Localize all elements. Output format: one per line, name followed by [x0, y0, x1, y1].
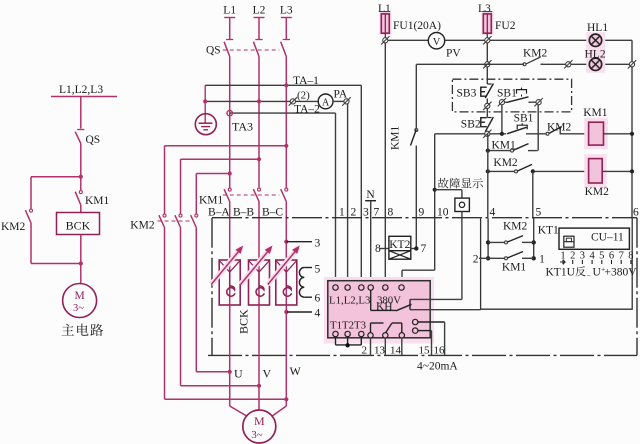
- svg-text:W: W: [290, 364, 302, 378]
- svg-text:6: 6: [609, 251, 614, 262]
- wire terminal 16 drop: [418, 321, 445, 323]
- wire 4 drop: [487, 134, 489, 219]
- svg-text:KT1U: KT1U: [546, 267, 576, 279]
- wire TA-2/ammeter line: [205, 100, 292, 102]
- svg-text:M: M: [74, 290, 84, 302]
- svg-text:KT2: KT2: [389, 239, 410, 251]
- svg-text:KM1: KM1: [199, 195, 224, 207]
- wire bypass tap phase B: [181, 158, 260, 160]
- wire bypass tap phase A: [196, 173, 229, 175]
- svg-text:16: 16: [434, 345, 446, 357]
- KH bottom terminals: [333, 331, 338, 336]
- pushbutton box (remote panel, dash-dot): [452, 79, 571, 112]
- wire 8 drop (L1 control feed): [384, 43, 386, 285]
- disconnector QS 3-pole: [226, 39, 233, 41]
- wire phase columns into BCK: [229, 202, 231, 261]
- terminal: [483, 60, 491, 68]
- contactor contact KM2 (left): [30, 209, 33, 212]
- fuse FU2: [481, 12, 493, 35]
- svg-text:L2: L2: [253, 5, 266, 17]
- svg-text:7: 7: [421, 243, 427, 255]
- svg-text:8: 8: [628, 251, 633, 262]
- inductor winding: [299, 268, 304, 298]
- adjustment arrow: [241, 248, 272, 285]
- wire fault input to KH: [410, 298, 462, 300]
- svg-text:SB2: SB2: [461, 119, 481, 131]
- wire terminal 15 drop: [418, 330, 432, 332]
- wire 3 drop to KH: [360, 85, 362, 285]
- wire phase A to U: [229, 305, 231, 406]
- svg-text:2: 2: [351, 207, 357, 219]
- wire lamp line: [416, 63, 524, 65]
- svg-text:4~20mA: 4~20mA: [417, 361, 458, 373]
- fault indicator box: [435, 189, 462, 191]
- wire: [80, 97, 82, 129]
- lamp halo: [586, 32, 605, 73]
- wire 7 drop: [370, 201, 372, 285]
- svg-text:3: 3: [580, 251, 585, 262]
- terminal: [564, 60, 572, 68]
- svg-text:+380V: +380V: [605, 267, 638, 279]
- svg-text:13: 13: [374, 345, 386, 357]
- KH analog output terminals: [413, 319, 418, 324]
- svg-text:KM1: KM1: [390, 125, 402, 150]
- motor M 3~ (main): [243, 410, 276, 443]
- adjustment arrow: [268, 248, 299, 285]
- svg-text:BCK: BCK: [237, 309, 251, 334]
- terminal: [483, 130, 491, 138]
- svg-text:1: 1: [339, 207, 345, 219]
- svg-text:3: 3: [363, 207, 369, 219]
- svg-text:4: 4: [589, 251, 595, 262]
- controller CU-11: [559, 228, 629, 249]
- svg-text:6: 6: [315, 293, 321, 305]
- wire motor leads: [230, 406, 248, 417]
- svg-text:FU2: FU2: [495, 20, 516, 32]
- svg-text:5: 5: [536, 207, 542, 219]
- contactor KM2 3-pole (bypass): [163, 214, 166, 217]
- svg-text:SB1: SB1: [514, 113, 534, 125]
- svg-text:KM1: KM1: [502, 262, 527, 274]
- regulator unit BCK phase: [229, 260, 231, 305]
- label 故障显示 (fault display): [438, 178, 449, 189]
- wire phase C to W: [285, 305, 287, 406]
- wire bypass drops: [164, 228, 166, 400]
- wire phase B to V: [258, 305, 260, 410]
- svg-text:TA3: TA3: [232, 120, 253, 134]
- wire L1 column: [229, 57, 231, 188]
- svg-text:14: 14: [390, 345, 402, 357]
- ground TA3: [204, 85, 206, 101]
- svg-text:2: 2: [362, 345, 368, 357]
- svg-text:HL1: HL1: [587, 22, 608, 34]
- svg-text:QS: QS: [206, 45, 221, 57]
- wire branch to KM2 bypass (left): [31, 176, 81, 178]
- svg-text:4: 4: [315, 308, 321, 320]
- svg-text:B–C: B–C: [262, 207, 283, 219]
- wire 5 inside: [533, 219, 535, 259]
- svg-text:N: N: [366, 189, 375, 201]
- terminal: [342, 97, 350, 105]
- svg-text:B–A: B–A: [208, 207, 230, 219]
- svg-text:M: M: [254, 414, 265, 428]
- switch QS (left): [77, 129, 84, 131]
- wire bypass tap phase C: [165, 145, 287, 147]
- svg-text:5: 5: [599, 251, 604, 262]
- svg-text:BCK: BCK: [66, 219, 91, 233]
- svg-text:B–B: B–B: [233, 207, 254, 219]
- node 3 tap: [284, 240, 288, 244]
- svg-text:7: 7: [374, 207, 380, 219]
- terminal bar: [224, 17, 235, 19]
- wire SB1 legs down: [501, 105, 503, 134]
- wire 10 drop (fault display): [434, 134, 436, 270]
- svg-text:KH: KH: [376, 301, 393, 313]
- svg-text:3~: 3~: [73, 303, 84, 314]
- svg-text:KM2: KM2: [585, 186, 610, 198]
- svg-text:1: 1: [539, 254, 545, 266]
- terminal: [483, 36, 491, 44]
- node junction above motor: [79, 261, 83, 265]
- svg-text:V: V: [263, 367, 272, 381]
- ammeter PA: [318, 94, 333, 109]
- node 6 tap: [304, 296, 312, 298]
- wire FU2 down to stop buttons: [486, 43, 488, 84]
- svg-text:V: V: [433, 37, 441, 48]
- enclosure boundary (dash-dot): [212, 217, 637, 219]
- svg-text:L1,L2,L3: L1,L2,L3: [329, 295, 370, 307]
- wire L2 column: [258, 57, 260, 188]
- node 4 tap: [284, 310, 288, 314]
- terminal bar: [281, 17, 292, 19]
- terminal: [628, 60, 636, 68]
- enclosure KT1 (solid box): [481, 219, 633, 310]
- wire KH to KT1 enclosure: [410, 309, 481, 311]
- svg-text:3: 3: [315, 238, 321, 250]
- KH top terminals: [333, 285, 338, 290]
- svg-text:FU1(20A): FU1(20A): [393, 20, 441, 32]
- svg-text:PV: PV: [446, 48, 461, 60]
- protection module KH (halo): [324, 277, 434, 344]
- contact KM1 (KT1 input): [486, 256, 490, 260]
- svg-text:TA–1: TA–1: [293, 75, 319, 87]
- svg-text:KM2: KM2: [503, 221, 528, 233]
- regulator unit BCK phase: [258, 260, 260, 305]
- svg-text:KM2: KM2: [130, 220, 155, 232]
- contactor contact KM1 (left): [80, 177, 82, 190]
- wire terminal 13 drop: [384, 338, 386, 355]
- wire right edge bus: [631, 40, 633, 218]
- label 主电路 (main circuit): [62, 324, 74, 336]
- svg-text:L1,L2,L3: L1,L2,L3: [59, 84, 103, 96]
- svg-text:8: 8: [388, 207, 394, 219]
- wire 1 drop to KH: [335, 113, 337, 285]
- wire terminal 14 drop: [401, 338, 403, 355]
- protection module KH box: [328, 281, 430, 338]
- svg-text:L3: L3: [280, 5, 293, 17]
- svg-text:A: A: [322, 97, 330, 108]
- coil KM2: [584, 154, 606, 187]
- contact KM2 (NO): [515, 170, 518, 173]
- wire: [80, 235, 82, 284]
- svg-text:3~: 3~: [251, 429, 263, 441]
- node tap on L1: [227, 110, 232, 115]
- node 5 tap: [304, 267, 312, 269]
- svg-text:T1T2T3: T1T2T3: [330, 320, 366, 332]
- node junction below QS: [79, 175, 83, 179]
- svg-text:2: 2: [570, 251, 575, 262]
- contactor KM1 3-pole (main): [228, 188, 231, 191]
- terminal: [381, 36, 389, 44]
- svg-text:KM2: KM2: [493, 157, 518, 169]
- terminal bar: [254, 17, 265, 19]
- terminal: [483, 102, 491, 110]
- svg-text:L1: L1: [223, 5, 236, 17]
- svg-text:PA: PA: [334, 89, 348, 101]
- svg-text:4: 4: [490, 207, 496, 219]
- regulator unit BCK phase: [285, 260, 287, 305]
- wire voltmeter line: [388, 39, 632, 41]
- terminal: [289, 97, 297, 105]
- coil KM1: [584, 118, 608, 149]
- fuse FU1(20A): [379, 12, 391, 35]
- motor M 3~ (left): [63, 284, 97, 318]
- svg-text:SB1: SB1: [497, 88, 517, 100]
- svg-text:KM1: KM1: [85, 195, 110, 207]
- svg-text:(2): (2): [297, 90, 310, 102]
- svg-text:U: U: [234, 367, 243, 381]
- wire 4 inside: [487, 219, 489, 259]
- svg-text:10: 10: [437, 207, 449, 219]
- svg-text:KM2: KM2: [1, 221, 26, 233]
- svg-text:KM2: KM2: [523, 48, 548, 60]
- svg-text:2: 2: [473, 254, 479, 266]
- svg-text:7: 7: [619, 251, 624, 262]
- svg-text:−: −: [587, 271, 591, 280]
- svg-text:KT1: KT1: [538, 225, 559, 237]
- wire TA-1 measurement line: [205, 84, 361, 86]
- svg-text:5: 5: [315, 264, 321, 276]
- svg-text:9: 9: [419, 207, 425, 219]
- wire terminal 2 drop: [370, 338, 372, 355]
- wire T1T2T3 tie bus: [335, 337, 337, 345]
- svg-text:15: 15: [419, 345, 431, 357]
- voltmeter PV: [428, 33, 444, 49]
- svg-text:KM1: KM1: [583, 107, 608, 119]
- svg-text:QS: QS: [86, 134, 101, 146]
- svg-text:CU–11: CU–11: [591, 232, 624, 244]
- wire 10 to KH input: [402, 269, 435, 271]
- wire 5 drop: [532, 171, 534, 218]
- regulator BCK (left box): [57, 213, 100, 235]
- wire 2 drop to KH: [347, 104, 349, 285]
- wire L3 column: [285, 57, 287, 188]
- contact KM2 (KT1 input): [486, 240, 490, 244]
- adjustment arrow: [211, 248, 242, 285]
- wire KM1 coil row: [435, 133, 485, 135]
- svg-text:SB3: SB3: [457, 88, 477, 100]
- svg-text:6: 6: [633, 207, 639, 219]
